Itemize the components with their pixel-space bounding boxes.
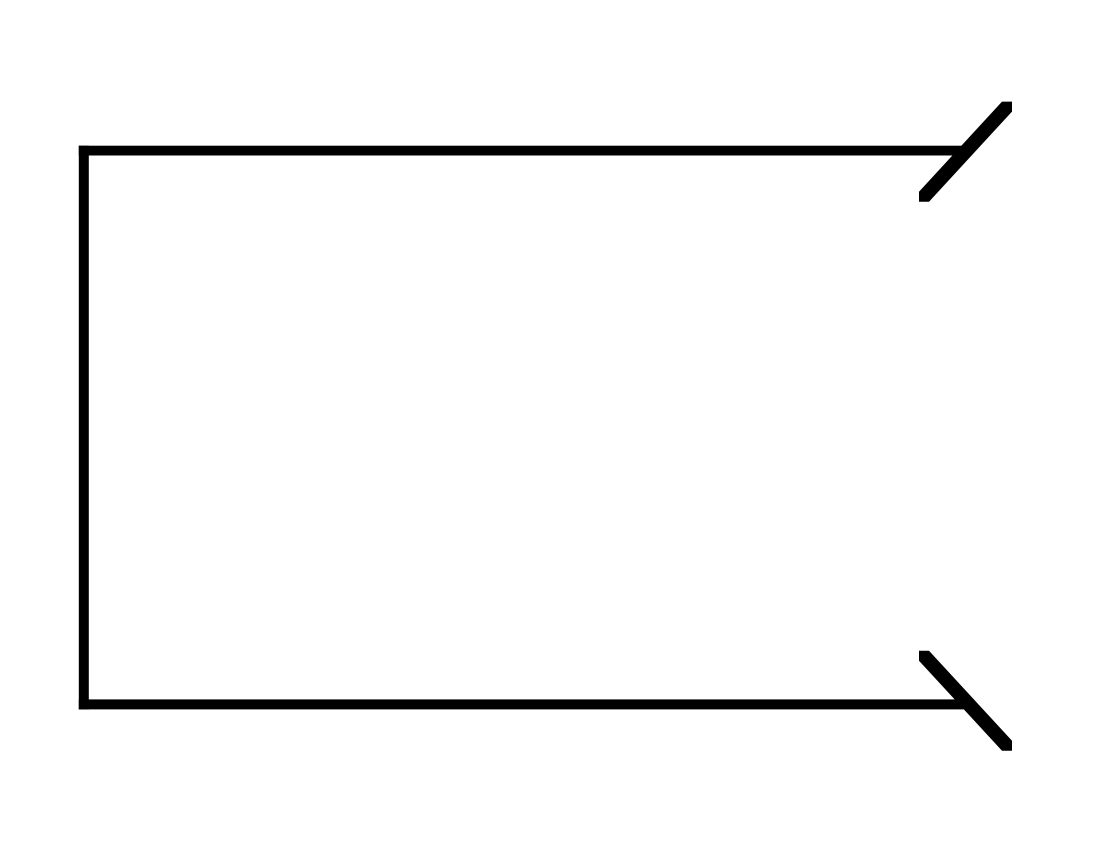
terminal stroke: diagonal mark across bottom-right wire end: [919, 651, 1012, 751]
terminal stroke: diagonal mark across top-right wire end: [919, 102, 1012, 202]
wire: top horizontal side of open loop: [79, 146, 968, 156]
wire: left vertical side of open loop: [79, 146, 89, 710]
wire: bottom horizontal side of open loop: [79, 699, 970, 709]
